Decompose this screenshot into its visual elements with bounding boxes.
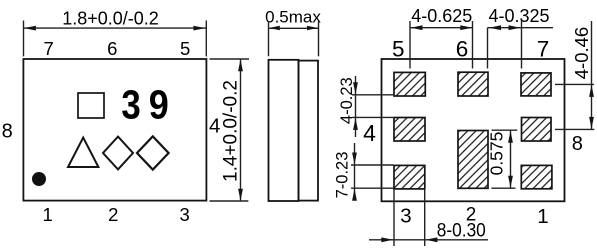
svg-text:2: 2 (108, 204, 118, 225)
svg-text:2: 2 (466, 205, 477, 226)
ext line pad3 bottom (351, 187, 394, 189)
svg-text:4-0.46: 4-0.46 (571, 27, 592, 79)
arrow right (307, 26, 318, 30)
side lid rect (299, 61, 319, 201)
svg-text:8: 8 (572, 133, 583, 155)
ext line pad3 left (393, 189, 395, 246)
pad 7 (521, 73, 551, 96)
dim line 4-0.625 (410, 27, 473, 29)
dim line 1.8 (23, 27, 206, 29)
svg-text:7: 7 (43, 38, 53, 59)
dim line 4-0.46 (591, 21, 593, 129)
dim line 8-0.30 (369, 239, 488, 241)
ext line pad7 mid (555, 83, 594, 85)
marking diamond 1 (103, 137, 133, 170)
arrow left (411, 25, 423, 30)
marking square (78, 93, 104, 118)
svg-text:3: 3 (121, 83, 140, 128)
arrow up to 117.4 (353, 118, 358, 130)
marking triangle (68, 138, 98, 167)
ext line pad2 bottom (491, 187, 515, 189)
svg-text:8: 8 (2, 120, 13, 142)
ext line pad2 top (492, 129, 518, 131)
marking diamond 2 (137, 136, 169, 169)
dim line 1.4 (240, 59, 242, 201)
arrow up to 188.2 (352, 189, 357, 201)
pad 6 (458, 72, 488, 96)
pad 5 (394, 72, 425, 96)
ext line pad3 top (351, 164, 394, 166)
extension line left (23, 21, 25, 57)
land pattern outline (382, 59, 565, 201)
package body outline (23, 59, 206, 201)
ext line pad8 mid (555, 128, 594, 130)
dim line 7-0.23 (354, 143, 356, 200)
ext line right (318, 22, 320, 57)
pin1 index dot (32, 172, 46, 186)
svg-text:5: 5 (392, 37, 405, 62)
dim line 4-0.23 (355, 76, 357, 137)
svg-text:4: 4 (209, 114, 220, 137)
svg-text:9: 9 (149, 82, 169, 128)
ext line pad7 left (521, 21, 523, 69)
pad 8 (522, 118, 552, 142)
dim ext top right (210, 58, 250, 60)
arrow up (508, 131, 513, 143)
svg-text:1.8+0.0/-0.2: 1.8+0.0/-0.2 (62, 9, 159, 29)
pad 1 (521, 165, 552, 188)
svg-text:6: 6 (107, 38, 117, 59)
pad 2 center (458, 131, 488, 189)
ext line pad6 right (487, 28, 489, 69)
pad 4 (394, 118, 425, 142)
arrow down (238, 189, 243, 201)
svg-text:5: 5 (180, 38, 190, 59)
arrow left (24, 26, 36, 31)
arrow outward right (509, 25, 521, 30)
arrow right (193, 26, 205, 31)
arrow down to 165 (352, 153, 357, 165)
svg-text:1: 1 (42, 204, 52, 225)
arrow left to 424.7 (425, 237, 437, 242)
svg-text:0.5max: 0.5max (265, 7, 321, 26)
svg-text:1: 1 (537, 205, 548, 228)
dim line 0.575 (510, 130, 512, 188)
arrow up (589, 85, 594, 97)
svg-text:4: 4 (363, 120, 376, 146)
extension line right (205, 21, 207, 57)
svg-text:3: 3 (179, 204, 189, 225)
side body rect (269, 60, 299, 201)
ext line row1 bottom (352, 94, 393, 96)
pad 3 (394, 165, 425, 189)
ext line pad5 center (409, 21, 411, 69)
svg-text:4-0.325: 4-0.325 (488, 6, 549, 26)
dim ext bottom right (210, 200, 249, 202)
dim line 0.5 (268, 27, 318, 29)
ext line pad4 top (352, 116, 393, 118)
arrow left (269, 26, 280, 30)
ext line left (268, 22, 270, 57)
ext line pad3 right (424, 189, 426, 246)
arrow up (238, 59, 243, 71)
svg-text:7-0.23: 7-0.23 (333, 152, 351, 199)
dim line 4-0.325 (488, 27, 554, 29)
arrow down (508, 176, 513, 188)
arrow down to 94.8 (353, 82, 358, 94)
arrow down (589, 117, 594, 129)
svg-text:1.4+0.0/-0.2: 1.4+0.0/-0.2 (220, 80, 241, 182)
arrow outward left (489, 25, 501, 30)
arrow right (460, 25, 472, 30)
svg-text:8-0.30: 8-0.30 (437, 219, 486, 241)
ext line pad6 center (472, 21, 474, 69)
svg-text:3: 3 (400, 205, 411, 228)
svg-text:6: 6 (456, 37, 469, 62)
svg-text:7: 7 (537, 37, 550, 62)
svg-text:0.575: 0.575 (487, 132, 507, 176)
svg-text:4-0.625: 4-0.625 (411, 6, 472, 26)
arrow right to 394 (381, 237, 393, 242)
